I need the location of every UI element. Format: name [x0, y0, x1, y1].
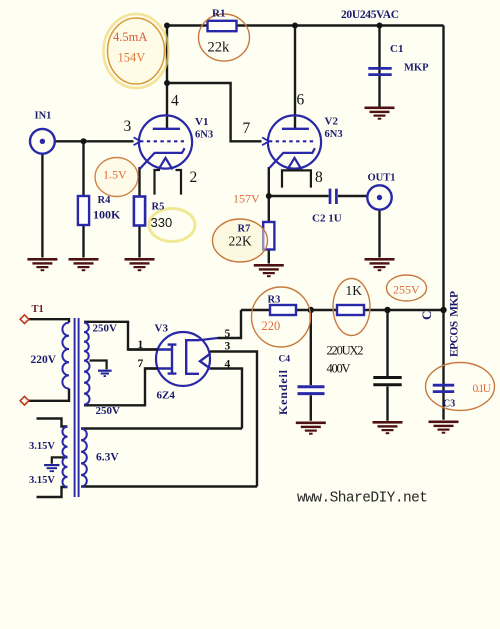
ground 250V center tap	[98, 370, 112, 377]
junction node 157V	[266, 193, 272, 199]
svg-text:0.1U: 0.1U	[473, 383, 492, 395]
svg-text:8: 8	[315, 169, 323, 186]
annotation oval R7 22K	[213, 219, 268, 262]
svg-text:T1: T1	[32, 304, 44, 315]
svg-text:220: 220	[262, 319, 281, 333]
svg-text:Kendeil: Kendeil	[276, 369, 290, 415]
svg-text:6.3V: 6.3V	[96, 452, 119, 464]
svg-text:www.ShareDIY.net: www.ShareDIY.net	[297, 491, 428, 507]
V3 plate leads pins 1,7	[158, 350, 172, 369]
wire: V3 pin 3 down to 6.3V winding bottom	[210, 352, 257, 487]
svg-text:20U245VAC: 20U245VAC	[341, 9, 399, 21]
svg-text:22k: 22k	[208, 40, 231, 56]
wire: C4 branch	[310, 310, 312, 421]
V2 heater	[288, 158, 302, 170]
annotation oval R3 220	[252, 287, 311, 347]
svg-text:250V: 250V	[93, 323, 118, 335]
svg-text:MKP: MKP	[404, 63, 429, 74]
svg-text:IN1: IN1	[35, 111, 52, 122]
svg-text:C4: C4	[279, 355, 291, 365]
wire: V1 plate to V2 grid coupling	[167, 83, 262, 141]
svg-text:C2 1U: C2 1U	[312, 213, 342, 225]
terminal T1 top	[20, 315, 29, 324]
transformer 250V secondary winding	[84, 323, 90, 405]
wire: 3.15V winding stubs	[37, 419, 68, 498]
ground middle cap	[373, 421, 403, 434]
V1 grid	[140, 140, 184, 142]
V3 cathode lead to pin 5	[199, 338, 218, 340]
junction node 1K-cap	[384, 307, 390, 313]
svg-text:330: 330	[151, 215, 173, 230]
wire: middle filter cap branch	[386, 310, 388, 421]
capacitor filter middle	[373, 378, 401, 385]
svg-text:V1: V1	[195, 116, 208, 128]
svg-text:100K: 100K	[93, 208, 121, 222]
svg-text:C: C	[419, 311, 434, 320]
svg-text:3.15V: 3.15V	[29, 441, 55, 452]
svg-text:157V: 157V	[233, 192, 260, 206]
svg-text:154V: 154V	[118, 51, 146, 65]
svg-text:V3: V3	[155, 323, 169, 335]
ground C4	[296, 422, 326, 435]
ground R5	[125, 258, 155, 271]
wire: V3 pin 5 cathode up to R3	[218, 310, 242, 338]
wire: primary top to terminal	[29, 319, 69, 322]
wire: C3 branch on right rail	[442, 310, 444, 420]
annotation oval 4.5mA 154V	[104, 14, 169, 88]
svg-text:1: 1	[138, 339, 144, 351]
capacitor C2	[330, 189, 336, 204]
ground IN1	[27, 258, 57, 271]
triode V2 envelope	[268, 115, 321, 168]
resistor R4	[78, 196, 89, 225]
ground R7	[254, 264, 284, 277]
transformer 6.3V winding	[81, 429, 87, 487]
junction node R3-C4	[308, 307, 314, 313]
svg-text:4.5mA: 4.5mA	[113, 30, 147, 44]
resistor R5	[134, 197, 145, 226]
wire: OUT1 to ground	[378, 210, 380, 258]
wire: V2 plate riser pin 6	[294, 26, 296, 129]
wire: top B+ rail from V1 plate node through R1 to right rail	[167, 24, 444, 26]
annotation oval R1 22k	[199, 14, 250, 61]
svg-text:6N3: 6N3	[195, 130, 213, 141]
svg-text:R3: R3	[268, 295, 281, 306]
resistor R3	[270, 305, 296, 315]
svg-text:3: 3	[124, 118, 132, 135]
svg-text:OUT1: OUT1	[368, 173, 396, 184]
wire: V2 cathode drop and 157V node to C2	[269, 167, 329, 222]
annotation oval 330	[149, 209, 195, 242]
resistor R7	[263, 222, 274, 250]
V2 plate	[282, 128, 309, 130]
svg-text:3: 3	[225, 341, 231, 353]
svg-text:22K: 22K	[229, 234, 253, 249]
transformer T1 primary winding	[62, 323, 69, 389]
junction node V2 plate	[292, 23, 298, 29]
V2 grid arrow	[262, 137, 269, 145]
wire: C2 to OUT1	[338, 195, 367, 197]
V1 grid arrow	[134, 137, 141, 145]
svg-text:1.5V: 1.5V	[103, 168, 127, 182]
wire: 6.3V winding leads	[81, 429, 257, 487]
wire: IN1 to ground	[41, 154, 43, 258]
V3 heater bracket	[186, 340, 199, 374]
annotation oval 255V	[387, 275, 427, 301]
svg-text:5: 5	[225, 328, 231, 340]
V1 plate	[153, 128, 180, 130]
rectifier V3 envelope	[156, 332, 210, 386]
capacitor C4	[298, 387, 325, 394]
transformer 3.15V winding	[62, 427, 67, 487]
svg-text:2: 2	[190, 169, 198, 186]
svg-text:6: 6	[297, 92, 305, 109]
resistor 1K	[337, 305, 364, 315]
svg-text:6Z4: 6Z4	[157, 390, 176, 402]
resistor R1	[208, 21, 237, 31]
V2 cathode	[269, 148, 315, 168]
V3 pin 7 wire	[145, 367, 158, 369]
svg-text:220UX2: 220UX2	[327, 344, 364, 358]
junction node top-left	[164, 23, 170, 29]
wire: 250V center tap	[90, 361, 107, 370]
wire: B+ filter line through R3 and 1K to C node	[241, 309, 444, 311]
capacitor C3	[433, 385, 454, 391]
junction node C rail	[440, 307, 446, 313]
V1 cathode	[140, 148, 185, 168]
svg-text:3.15V: 3.15V	[29, 475, 55, 486]
wire: right vertical rail down to C node	[442, 26, 444, 311]
wire: V1 plate riser pin 4	[166, 26, 168, 129]
connector OUT1	[367, 185, 391, 209]
svg-text:7: 7	[243, 120, 251, 137]
svg-text:4: 4	[225, 359, 231, 371]
ground OUT1	[365, 258, 395, 271]
svg-text:220V: 220V	[31, 354, 57, 366]
ground C3	[429, 421, 459, 434]
wire: R7 to ground	[268, 250, 270, 264]
svg-text:255V: 255V	[393, 283, 420, 297]
V2 grid	[269, 140, 313, 142]
svg-text:6N3: 6N3	[325, 129, 343, 140]
wire: C1 branch from top rail	[378, 26, 380, 107]
svg-text:400V: 400V	[327, 362, 351, 376]
svg-text:V2: V2	[325, 116, 339, 128]
wire: 250V bottom winding to V3 pin 7	[84, 369, 158, 406]
terminal T1 bottom	[20, 396, 29, 405]
ground C1	[365, 107, 395, 120]
ground 3.15V center tap	[44, 464, 59, 472]
annotation oval 1K	[333, 279, 370, 336]
wire: V3 pin 4 down to 6.3V winding top	[210, 369, 243, 429]
svg-text:EPCOS MKP: EPCOS MKP	[449, 291, 461, 357]
junction node V1 plate coupling	[164, 80, 170, 86]
connector IN1	[30, 129, 55, 154]
annotation oval 1.5V	[95, 158, 138, 197]
wire: 3.15V center tap	[52, 457, 68, 463]
V1 heater pins	[155, 170, 182, 195]
V2 heater pins	[282, 170, 311, 187]
annotation oval C3 0.1U	[426, 363, 495, 411]
svg-text:R1: R1	[212, 8, 225, 20]
V3 cathode arrow	[200, 353, 211, 368]
svg-text:7: 7	[138, 358, 144, 370]
ground R4	[69, 258, 99, 271]
wire: 250V top winding to V3 pin 1	[84, 322, 158, 350]
svg-text:R5: R5	[152, 202, 165, 213]
svg-text:C1: C1	[390, 43, 403, 55]
svg-text:4: 4	[171, 93, 179, 110]
wire: primary bottom to terminal	[29, 389, 69, 401]
svg-text:C3: C3	[443, 399, 455, 410]
wire: R4 branch	[82, 141, 84, 257]
wire: IN1 to V1 grid	[55, 140, 134, 142]
junction node C1	[377, 23, 383, 29]
op... triode V1 envelope	[139, 115, 192, 168]
wire: V1 cathode to R5 to ground	[138, 167, 140, 258]
V3 pin 1 wire	[128, 348, 158, 350]
svg-text:R4: R4	[98, 195, 112, 206]
svg-text:250V: 250V	[96, 405, 121, 417]
junction node input grid	[81, 138, 87, 144]
transformer core	[75, 318, 79, 497]
svg-text:1K: 1K	[346, 283, 363, 298]
V3 plate bar	[168, 345, 177, 374]
capacitor C1	[368, 68, 391, 74]
V1 heater	[159, 158, 173, 170]
